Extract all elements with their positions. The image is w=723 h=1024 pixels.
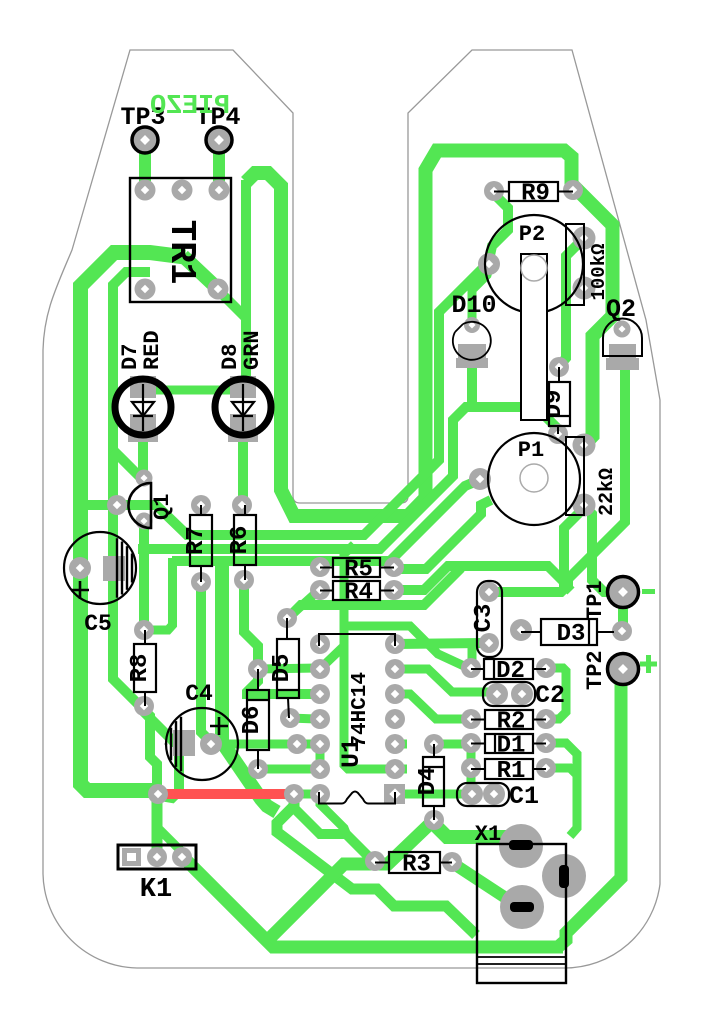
svg-text:D6: D6 [239,706,266,735]
svg-text:TP2: TP2 [583,650,608,690]
wire C4 left pad down to red jumper pad [160,744,179,798]
resistor R1 [471,768,485,770]
connector X1 pads [499,824,543,868]
resistor R1 pads [461,758,481,778]
wire red to U1 pad link [294,790,320,799]
diode D2 pads [461,658,481,678]
wire D5 top diagonal band to bundle [289,568,461,617]
LED D8 [215,379,271,435]
resistor R5 [320,567,333,569]
diode D10 [453,322,491,360]
red wire jumper [158,789,294,799]
wire R6 bottom to D6 top and row 694 to U1 [244,580,318,694]
wire D7 bottom to Q1 top [138,424,148,477]
wire U1 row669 diagonal to C2 left [395,669,492,692]
pot P1 [488,433,580,525]
wire P2 right pad down to D9 top [560,240,582,365]
svg-text:100kΩ: 100kΩ [588,243,610,300]
capacitor C4 pads [200,733,222,755]
wire R7 bottom to C4 plus pad [201,582,211,742]
svg-text:Q1: Q1 [150,494,175,520]
resistor R4 [320,590,333,592]
wire R4 right to band above C3 [395,566,564,590]
resistor R4 pads [310,580,330,600]
resistor R2 pads [461,709,481,729]
diode D4 [433,744,435,757]
wire TR1 pad to D8 anode vertical [218,290,246,318]
test point TP2 pad [608,654,639,685]
svg-text:R9: R9 [521,181,550,208]
wire K1 branch diagonal [158,828,188,858]
svg-text:22kΩ: 22kΩ [596,468,619,516]
wire TP4 stub [213,140,225,190]
pot P1 pads [469,468,491,490]
extra pad row744 [287,734,307,754]
test point TP1 pad [608,577,639,608]
wire P1 pad alt vertical [564,511,581,591]
wire D4 bottom wide diagonal behind R3 to bottom bar [268,814,434,940]
wire TR1 bar B down second vertical through C5 to K1 pad area [113,272,157,792]
wire R9 left into P2 [489,194,508,260]
diode D2 [471,668,484,670]
wire D8 bottom to R6 top [238,424,248,505]
wire R4 left to D5 top diagonal [288,591,318,618]
resistor R7 [200,505,202,515]
wire D1 left to D4 top [438,740,466,749]
resistor R8 [144,630,146,644]
svg-text:TP1: TP1 [583,580,608,620]
svg-text:TR1: TR1 [161,220,202,285]
wire U1 square pad row 794 to C1 left [400,790,468,799]
resistor R2 [471,719,485,721]
wire R3 right to X1 pad2 diagonal [454,864,518,906]
resistor R6 pads [232,495,252,515]
wire bus row3 from left wide vertical to P1 left pad [172,480,479,561]
diode D9 [558,367,560,382]
LED D8 pads [230,376,256,398]
resistor R8 pads [134,620,154,640]
svg-text:PIEZO: PIEZO [150,92,230,122]
svg-text:D5: D5 [269,654,296,683]
transistor Q2 pads [614,321,631,338]
wire wide vertical from bus through C4 down to bottom bar [222,560,277,812]
pot P2 pads [478,253,500,275]
resistor R5 pads [310,557,330,577]
svg-text:R8: R8 [127,654,154,683]
svg-text:C5: C5 [84,611,112,637]
resistor R9 [494,191,509,193]
wire branch to D2 left [344,626,464,666]
LED D7 [115,379,171,435]
capacitor C4 [166,708,238,780]
svg-text:R4: R4 [344,580,373,607]
wire TP3 stub [139,140,151,190]
resistor R6 [244,505,246,515]
TR1 pads [135,180,156,201]
wire U1 bottom-left pad zigzag merge [320,792,346,833]
wire TR1 wide bar A to left wide vertical down to K1 corner [81,253,186,791]
wire TP1 to D3 right pad [618,592,628,631]
diode D6 [257,669,259,690]
connector X1 [477,844,566,983]
wire D5 bottom stub to U1 [290,718,316,719]
wire Q2 emitter down to C3 top [492,360,625,592]
svg-text:K1: K1 [140,875,172,905]
diode D5 [286,618,288,639]
capacitor C2 pads [486,683,508,705]
IC U1 pads [310,634,330,654]
diode D3 pads [510,619,532,641]
diode D1 pads [461,733,481,753]
capacitor C5 pads [69,557,91,579]
test point TP3 pad [132,127,158,153]
svg-text:U1: U1 [337,738,366,768]
wire D4 bottom branch to X1 pad1 [431,821,524,845]
transistor Q1 [129,483,152,528]
red jumper end pads [148,784,168,804]
IC U1 outline [319,634,395,646]
K1 pads [122,848,141,866]
wire U1 mid column up to bus row2 [321,545,354,669]
svg-text:Q2: Q2 [606,295,636,324]
svg-text:C4: C4 [185,681,213,707]
wire D1 right down to X1 bar [548,743,577,836]
svg-text:RED: RED [140,330,165,370]
wire D2 right to R2 right vertical [548,668,566,719]
svg-text:R7: R7 [183,526,210,555]
svg-text:C3: C3 [471,604,498,633]
wire U1 pad stub vertical 744-769 [316,744,325,769]
resistor R3 pads [365,851,385,871]
svg-text:C1: C1 [509,782,539,811]
svg-text:D3: D3 [557,621,586,648]
capacitor C1 [457,783,509,806]
wire R8 top riser and bus row2 to D9/D10 bottom [138,407,558,549]
board outline [43,50,660,968]
svg-text:D10: D10 [451,291,496,320]
wire Q1 left pad feed and bus row1 to P2 left pad [84,264,487,535]
svg-text:R6: R6 [227,526,254,555]
LED D7 pads [130,376,156,398]
wire slot wrap loop: TR1 right, around slot, top bar, right side down to P1 [246,151,613,517]
diode D6 pads [248,659,268,679]
pot P2 [485,215,583,313]
wire K1 pin3 wide diagonal to bottom bar to TP2 drop [184,858,563,947]
wire snake from C4 junction to X1 area [277,796,476,935]
diode D10 pads [464,317,480,333]
wire R1 right stub [548,768,577,775]
svg-text:R2: R2 [497,709,526,736]
diode D4 pads [424,734,444,754]
capacitor C5 [64,532,136,604]
svg-text:R1: R1 [497,758,526,785]
wire C4 plus row 744 to U1 [219,740,318,749]
test point TP4 pad [206,127,232,153]
diode D3 [521,631,541,633]
wire R5 right bus row4 under P1 [394,500,491,569]
diode D1 [471,743,485,745]
svg-text:C2: C2 [535,681,565,710]
wire U1 right stubs [395,740,407,749]
wire red pad junction down-right zigzag to R3 left [294,792,375,861]
svg-text:X1: X1 [475,822,501,847]
wire D10 bottom stub [467,358,477,407]
resistor R3 [375,862,389,864]
wire diagonal TR1 interior to bottom-right pad [183,256,218,289]
capacitor C3 pads [479,582,499,602]
capacitor C1 pads [461,783,483,805]
svg-text:R3: R3 [402,852,431,879]
svg-text:74HC14: 74HC14 [349,672,372,748]
minus mark [642,589,655,594]
svg-text:GRN: GRN [240,330,265,370]
wire D10 top to P2 left pad [472,268,489,322]
connector K1 [118,845,196,869]
wire R8 bottom to C4 left pad [144,706,179,742]
wire P1 lower right pad down to TP1 [584,506,620,592]
wire stub C3 row down to D2 left [468,646,477,666]
transformer TR1 [130,178,231,302]
svg-text:D4: D4 [415,767,442,796]
resistor R7 pads [191,495,211,515]
svg-text:D1: D1 [497,733,526,760]
capacitor C2 [483,682,535,706]
capacitor C3 [477,581,502,657]
wire U1 row644 to C3 bottom [395,643,484,644]
resistor R9 pads [484,181,504,201]
wire U1 row694 diagonal to R2 left [395,694,468,719]
wire K1 pin2 drop [152,792,163,853]
wire D7 top to D8 top horizontal [145,386,240,395]
svg-text:P2: P2 [519,222,545,247]
wire U1 mid column down to pin row 769 [344,644,392,769]
transistor Q1 pads [136,470,153,487]
diode D9 pads [549,357,569,377]
transistor Q2 [603,319,642,357]
wire D6 top row 668 to U1 [258,668,318,669]
wire D1 R1 left vertical to C1 [467,743,476,794]
wire D6 bottom row 769 to U1 [258,765,318,774]
wire TP2 plus drop to bottom bar [558,669,621,947]
wire branch to Q1 top pad [113,450,143,480]
svg-text:P1: P1 [518,438,544,463]
diode D5 pads [277,608,297,628]
plus mark [640,662,657,667]
